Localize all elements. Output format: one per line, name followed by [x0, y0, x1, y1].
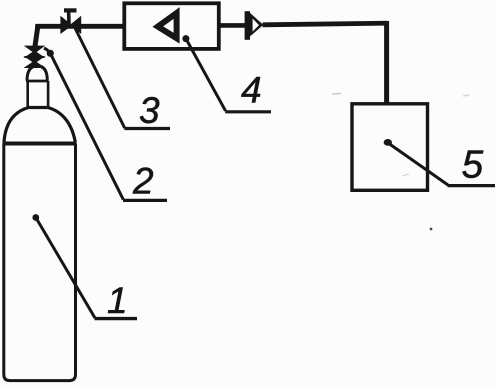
valve 3 stem [67, 11, 71, 25]
neck top line [26, 80, 49, 83]
wire: right vertical down to box 5 [384, 21, 389, 104]
wire: box 4 to check valve [219, 23, 246, 28]
neck cap dome [27, 66, 47, 81]
cylinder valve hourglass B [27, 57, 41, 62]
node dot 2 at cylinder valve [47, 50, 54, 57]
triangle inside box 4 [158, 13, 177, 38]
underline 3 [124, 127, 170, 130]
svg-text:2: 2 [132, 161, 154, 202]
underline 5 [448, 184, 495, 187]
underline 4 [225, 110, 271, 113]
cylinder weld line [3, 142, 77, 146]
leader line 3 [75, 27, 125, 128]
svg-text:1: 1 [107, 280, 128, 321]
node dot 5 in box 5 [384, 139, 392, 146]
leader line 5 [388, 143, 448, 185]
leader line 2 [44, 48, 123, 200]
wire: pipe from cylinder valve up to corner [35, 26, 38, 47]
wire: top horizontal line to box 4 [35, 24, 124, 29]
svg-text:3: 3 [139, 90, 160, 131]
svg-text:4: 4 [241, 69, 262, 110]
node dot 4 in box 4 [182, 35, 189, 42]
valve V (item 3) bowtie [61, 18, 71, 33]
check valve triangle [250, 12, 264, 37]
box U (item 4) [124, 3, 219, 49]
check valve bar [245, 11, 250, 40]
valve 3 handle T-bar [64, 8, 77, 12]
leader line 4 [186, 39, 226, 111]
wire: check valve to right corner [263, 23, 388, 25]
stray speck [430, 228, 433, 231]
svg-text:5: 5 [462, 144, 484, 187]
underline 1 [95, 317, 138, 320]
cylinder body (item 1) [4, 144, 76, 381]
leader line 1 [36, 218, 95, 319]
cylinder shoulder [4, 108, 75, 143]
underline 2 [123, 199, 167, 202]
cylinder valve (item 2) hourglass A [27, 47, 41, 52]
box chamber (item 5) [352, 104, 428, 191]
cylinder neck [28, 81, 48, 108]
node dot 1 in cylinder [32, 214, 39, 221]
